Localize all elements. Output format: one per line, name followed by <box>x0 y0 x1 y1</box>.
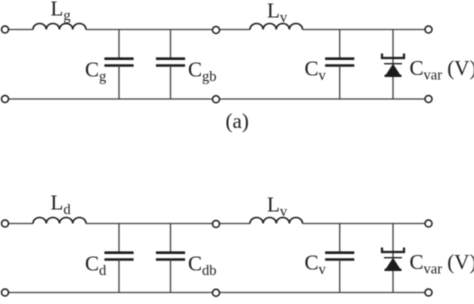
svg-text:Cvar (V): Cvar (V) <box>410 250 474 278</box>
capacitor Cv (a) <box>325 30 354 100</box>
inductor Ld (b) <box>33 218 86 224</box>
terminal mid node top (a) <box>213 27 220 34</box>
capacitor Cv (b) <box>325 224 354 293</box>
terminal mid node top (b) <box>213 221 220 228</box>
capacitor Cgb (a) <box>156 30 185 100</box>
capacitor Cdb (b) <box>156 224 185 293</box>
capacitor Cd (b) <box>104 224 133 293</box>
inductor Lg (a) <box>33 24 86 30</box>
terminal mid node bottom (b) <box>213 289 220 296</box>
wire: top rail middle segment (a) <box>86 29 250 31</box>
varactor diode Cvar (a) <box>382 30 404 100</box>
inductor Lv (a) <box>250 24 303 30</box>
wire: top rail right segment (b) <box>303 223 426 225</box>
wire: top rail left segment (a) <box>9 29 34 31</box>
svg-text:(a): (a) <box>226 109 249 133</box>
wire: bottom rail (b) <box>9 292 426 294</box>
terminal input bottom (b) <box>2 289 9 296</box>
terminal output top (b) <box>425 220 432 227</box>
wire: bottom rail (a) <box>9 98 426 100</box>
terminal output bottom (a) <box>425 96 432 103</box>
terminal output top (a) <box>425 26 432 33</box>
terminal input top (b) <box>2 220 9 227</box>
wire: top rail left segment (b) <box>9 223 34 225</box>
terminal mid node bottom (a) <box>213 96 220 103</box>
varactor diode Cvar (b) <box>382 224 404 293</box>
svg-text:Cvar (V): Cvar (V) <box>410 56 474 84</box>
terminal input bottom (a) <box>2 96 9 103</box>
wire: top rail right segment (a) <box>303 29 426 31</box>
terminal output bottom (b) <box>425 289 432 296</box>
wire: top rail middle segment (b) <box>86 223 250 225</box>
capacitor Cg (a) <box>104 30 133 100</box>
inductor Lv (b) <box>250 218 303 224</box>
terminal input top (a) <box>2 26 9 33</box>
